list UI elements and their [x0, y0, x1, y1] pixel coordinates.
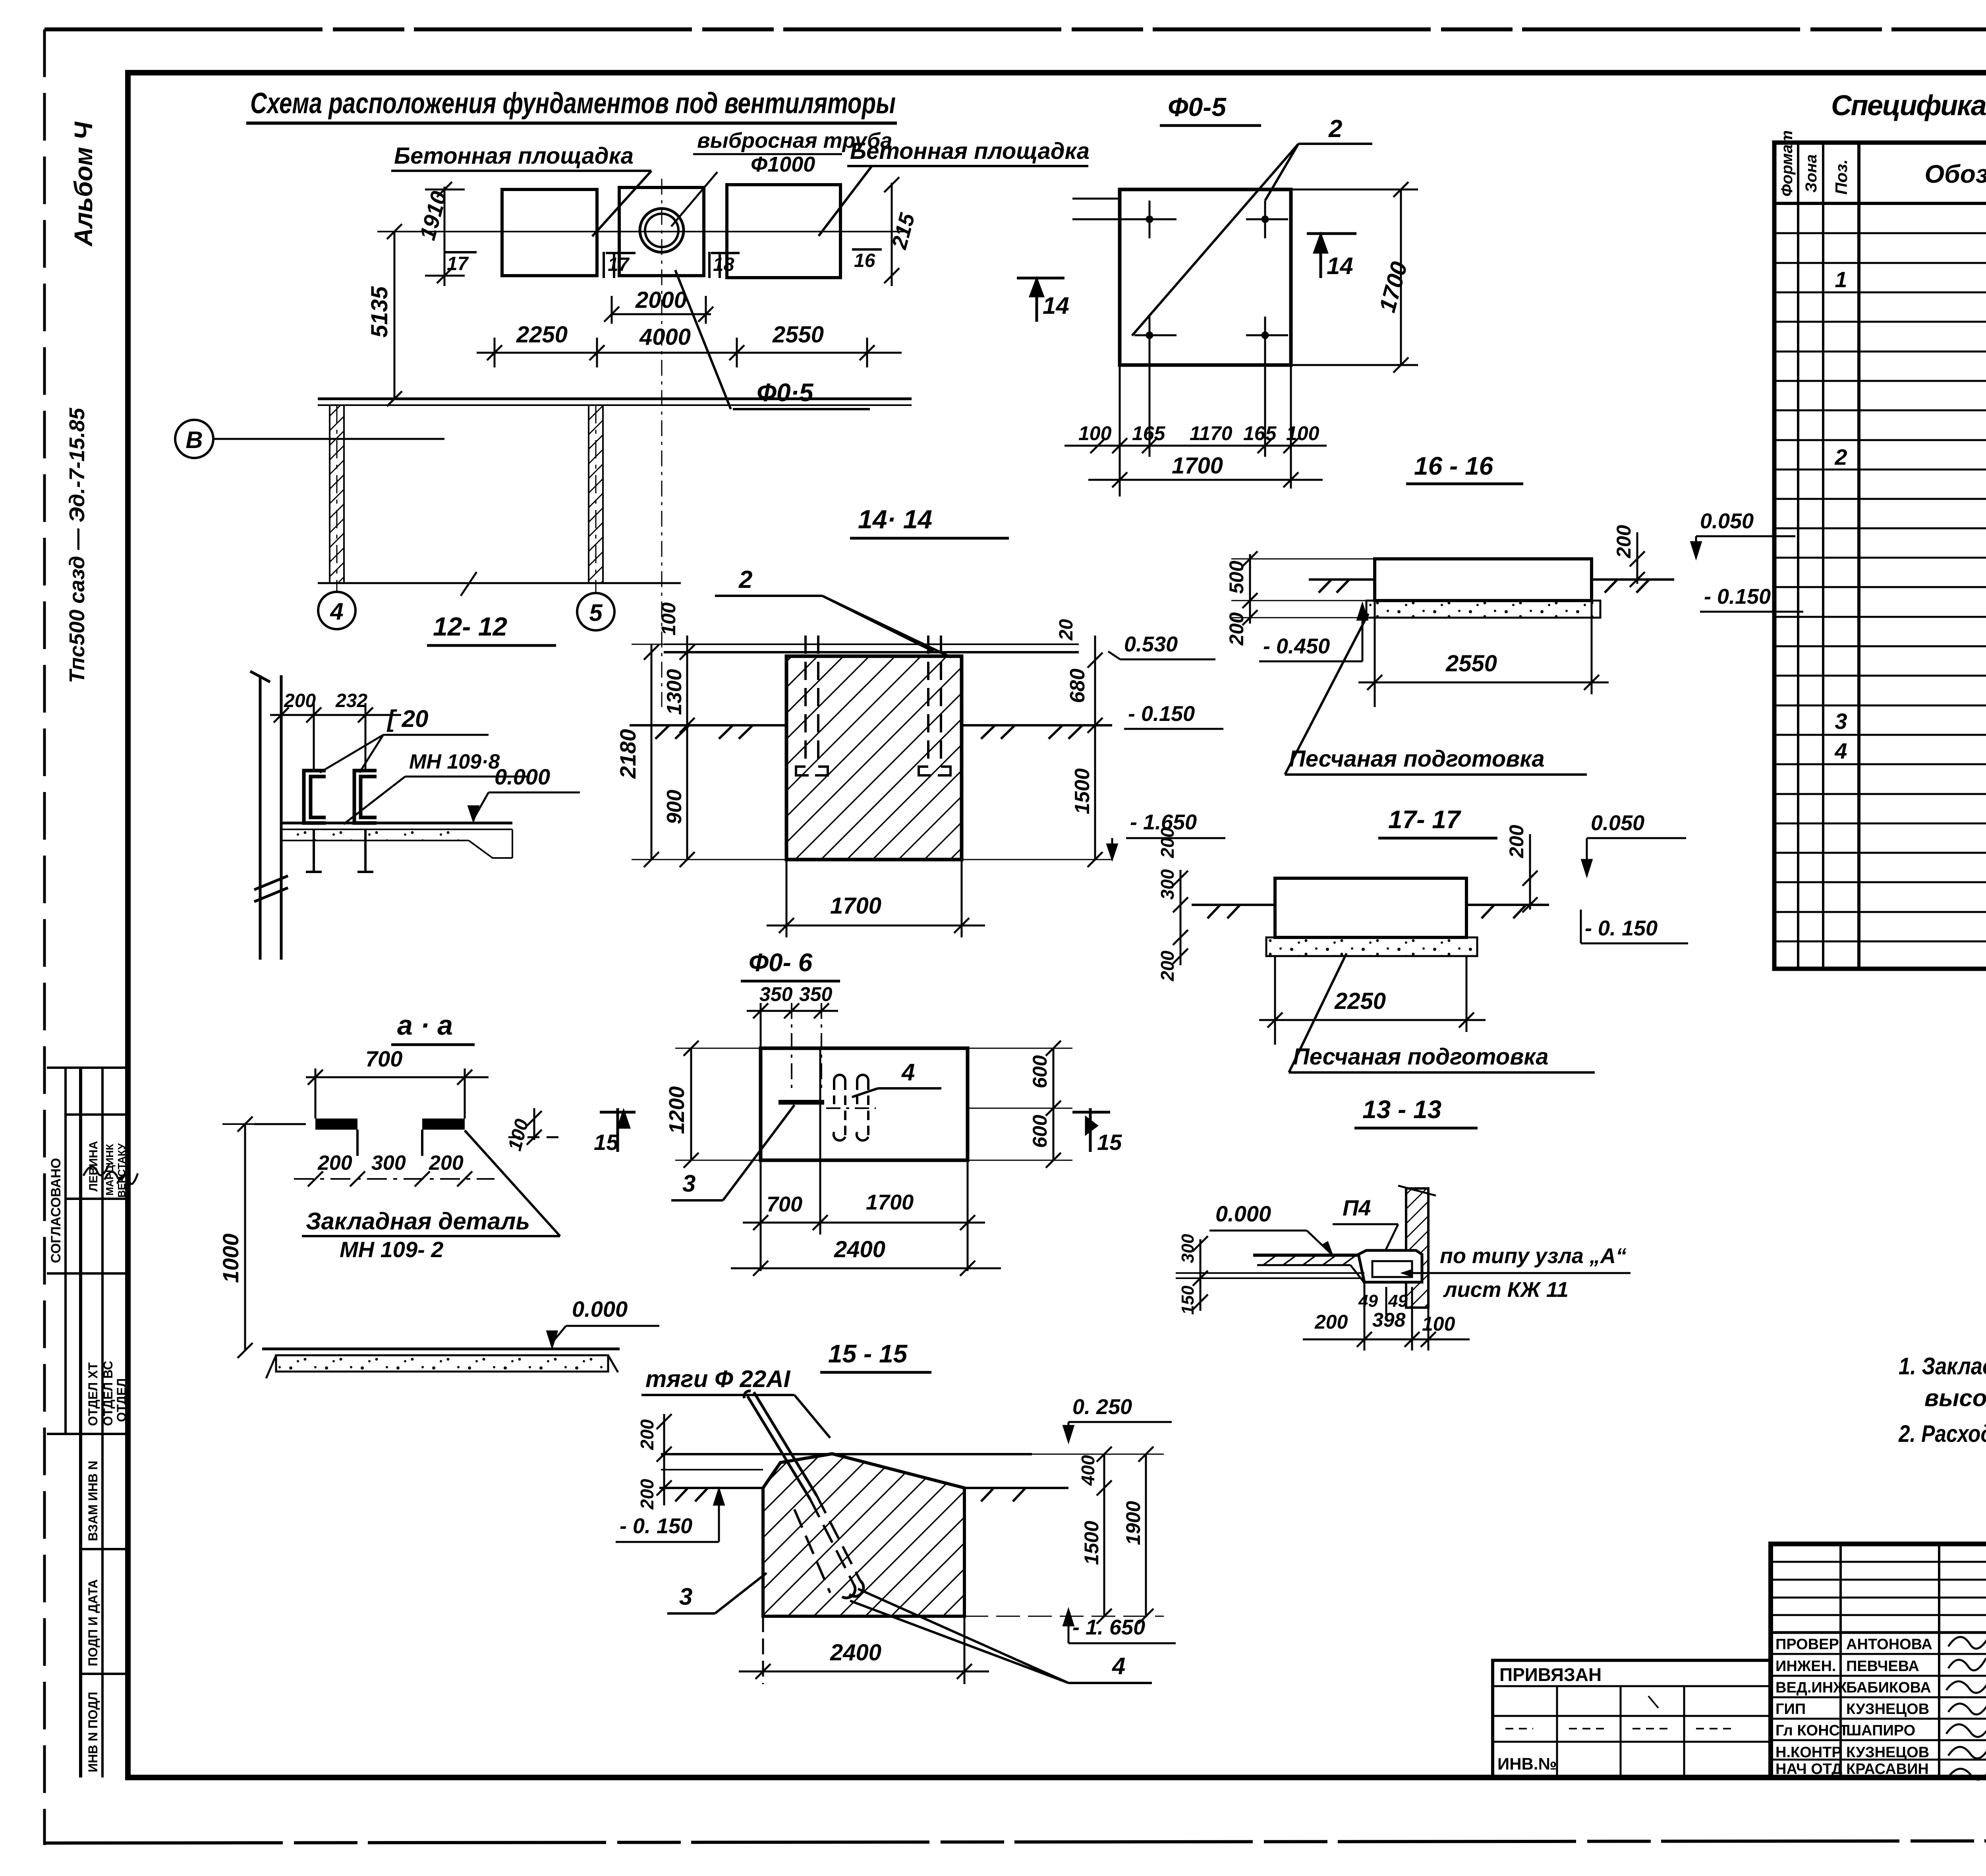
svg-text:200: 200: [1613, 525, 1635, 558]
svg-text:12- 12: 12- 12: [433, 612, 507, 641]
slab speckle band 12-12: [283, 830, 468, 840]
detail 4 hooks in plan: [826, 1075, 876, 1140]
tie rods dashed inside block: [794, 1495, 860, 1593]
floor slab strip a-a: [262, 1349, 620, 1378]
svg-text:0.000: 0.000: [572, 1296, 628, 1322]
svg-text:2400: 2400: [830, 1640, 881, 1665]
anchor bolts in plan: [1072, 199, 1288, 354]
foundation F0-5 middle: [619, 187, 704, 276]
svg-text:2000: 2000: [635, 287, 687, 313]
title block (stamp): [1771, 1544, 1986, 1777]
svg-text:700: 700: [767, 1192, 802, 1216]
svg-text:ШАПИРО: ШАПИРО: [1846, 1722, 1915, 1739]
svg-text:ПРОВЕР: ПРОВЕР: [1775, 1636, 1839, 1653]
svg-text:13 - 13: 13 - 13: [1362, 1095, 1441, 1124]
svg-text:ВЗАМ ИНВ N: ВЗАМ ИНВ N: [86, 1461, 100, 1541]
section 16-16 slab: [1375, 559, 1592, 601]
svg-text:МН 109- 2: МН 109- 2: [340, 1237, 443, 1262]
sand preparation band 16-16: [1366, 601, 1600, 618]
svg-text:1500: 1500: [1080, 1521, 1103, 1565]
svg-text:2550: 2550: [1445, 651, 1497, 676]
svg-text:2180: 2180: [615, 729, 640, 779]
svg-text:Бетонная площадка: Бетонная площадка: [394, 143, 634, 169]
svg-text:Ф0-5: Ф0-5: [1168, 92, 1227, 122]
svg-text:1500: 1500: [1071, 768, 1094, 814]
svg-text:3: 3: [679, 1583, 692, 1610]
svg-text:300: 300: [371, 1151, 406, 1175]
svg-text:Схема расположения фундаментов: Схема расположения фундаментов под венти…: [250, 87, 896, 120]
svg-text:200: 200: [1157, 951, 1178, 981]
svg-text:ПОДП И ДАТА: ПОДП И ДАТА: [86, 1579, 100, 1666]
svg-text:900: 900: [663, 790, 686, 824]
svg-text:ИНЖЕН.: ИНЖЕН.: [1775, 1658, 1836, 1675]
svg-text:2. Расход бетона на бетонны: 2. Расход бетона на бетонные площадки: б…: [1898, 1420, 1986, 1447]
svg-text:[ 20: [ 20: [386, 705, 428, 732]
14-14 foundation block hatched: [786, 656, 962, 860]
svg-text:5: 5: [589, 599, 603, 626]
svg-text:КУЗНЕЦОВ: КУЗНЕЦОВ: [1846, 1701, 1929, 1718]
svg-text:НАЧ ОТД: НАЧ ОТД: [1775, 1761, 1842, 1777]
svg-text:Спецификация монолитных фунд: Спецификация монолитных фундаментов: [1831, 90, 1986, 122]
svg-text:3: 3: [1835, 709, 1847, 734]
channel brackets [20: [304, 771, 377, 823]
svg-text:2: 2: [1834, 444, 1847, 469]
svg-text:165: 165: [1243, 422, 1277, 444]
specification table grid: [1774, 143, 1986, 969]
break mark on wall: [461, 572, 477, 596]
svg-text:Гл КОНСТ: Гл КОНСТ: [1775, 1722, 1849, 1739]
svg-text:1700: 1700: [830, 893, 881, 919]
svg-text:2250: 2250: [516, 322, 568, 348]
svg-text:17: 17: [447, 253, 469, 274]
svg-text:ОТДЕЛ: ОТДЕЛ: [114, 1378, 129, 1422]
table rows content: [1834, 205, 1986, 852]
svg-text:1300: 1300: [663, 669, 686, 715]
svg-text:17- 17: 17- 17: [1388, 805, 1462, 834]
plan view: layout of foundations under ventilators: [502, 185, 840, 278]
F0-5 foundation square: [1120, 189, 1291, 365]
svg-text:680: 680: [1066, 668, 1089, 703]
svg-text:- 0. 150: - 0. 150: [620, 1514, 692, 1538]
svg-text:ГИП: ГИП: [1775, 1701, 1806, 1718]
svg-text:МН 109·8: МН 109·8: [409, 750, 500, 773]
svg-text:П4: П4: [1343, 1195, 1371, 1220]
ground lines 14-14: [630, 725, 1112, 739]
svg-text:4: 4: [330, 598, 343, 625]
floor level line 15-15: [661, 1453, 1032, 1455]
svg-text:5135: 5135: [367, 286, 392, 338]
svg-text:14· 14: 14· 14: [858, 504, 932, 534]
svg-text:200: 200: [637, 1419, 657, 1450]
svg-text:ПЕВЧЕВА: ПЕВЧЕВА: [1846, 1658, 1919, 1675]
svg-text:БАБИКОВА: БАБИКОВА: [1846, 1679, 1931, 1696]
svg-text:4: 4: [901, 1059, 915, 1086]
svg-text:1700: 1700: [866, 1190, 914, 1214]
tie rod above ground: [744, 1391, 817, 1499]
svg-text:600: 600: [1029, 1055, 1051, 1088]
svg-text:200: 200: [637, 1479, 657, 1510]
svg-text:Песчаная подготовка: Песчаная подготовка: [1293, 1044, 1549, 1070]
svg-text:2400: 2400: [834, 1236, 885, 1262]
svg-text:КРАСАВИН: КРАСАВИН: [1846, 1761, 1929, 1777]
svg-text:- 0.150: - 0.150: [1128, 702, 1195, 726]
embedded plates a-a: [315, 1119, 357, 1130]
svg-text:0.050: 0.050: [1591, 811, 1644, 835]
svg-text:0.530: 0.530: [1124, 632, 1178, 656]
dashed centerline a-a: [294, 1178, 495, 1180]
section 17-17 slab: [1275, 878, 1466, 937]
svg-text:СОГЛАСОВАНО: СОГЛАСОВАНО: [48, 1158, 64, 1263]
left sidebar grid: [47, 1068, 128, 1777]
svg-text:Альбом Ч: Альбом Ч: [69, 121, 98, 247]
dim 1910: [425, 182, 465, 286]
channel P4 13-13: [1358, 1250, 1422, 1282]
horizontal ref line through plates: [254, 1123, 306, 1125]
floor slab 12-12: [281, 823, 512, 858]
svg-text:14: 14: [1043, 292, 1069, 319]
wall 13-13 hatched: [1406, 1188, 1428, 1308]
ground lines 16-16: [1309, 580, 1674, 593]
svg-text:- 0. 150: - 0. 150: [1585, 916, 1658, 940]
svg-text:15: 15: [1097, 1130, 1122, 1155]
svg-text:Тпс500 сазд — Эд.-7-15.85: Тпс500 сазд — Эд.-7-15.85: [65, 408, 89, 683]
svg-text:1900: 1900: [1122, 1501, 1144, 1545]
svg-text:350: 350: [799, 983, 833, 1005]
svg-text:ВЕД.ИНЖ: ВЕД.ИНЖ: [1775, 1679, 1847, 1696]
svg-text:1: 1: [1835, 267, 1847, 292]
svg-text:Закладная деталь: Закладная деталь: [306, 1208, 530, 1235]
svg-text:по типу узла „А“: по типу узла „А“: [1440, 1244, 1627, 1268]
svg-text:ИНВ N ПОДЛ: ИНВ N ПОДЛ: [86, 1692, 100, 1772]
sidebar rotated texts: [48, 1141, 129, 1772]
svg-text:4: 4: [1112, 1653, 1125, 1679]
foundation pad F0-4 left: [502, 189, 597, 276]
svg-text:49: 49: [1358, 1291, 1378, 1311]
svg-text:- 0.450: - 0.450: [1263, 634, 1330, 658]
exhaust pipe circle: [640, 209, 684, 252]
svg-text:Ф1000: Ф1000: [751, 153, 815, 176]
svg-text:1000: 1000: [218, 1233, 243, 1283]
section marks 17 17 18 16 on plan: [447, 250, 875, 275]
svg-text:18: 18: [713, 254, 734, 275]
section mark 14 right: [1307, 234, 1356, 278]
ground 17-17: [1192, 905, 1549, 918]
svg-text:1700: 1700: [1172, 453, 1223, 479]
svg-text:АНТОНОВА: АНТОНОВА: [1846, 1636, 1932, 1653]
wall in plan: [318, 399, 912, 583]
anchor bolts in 14-14 (dashed): [806, 636, 941, 767]
sand band 17-17: [1266, 937, 1477, 956]
svg-text:0.050: 0.050: [1700, 509, 1754, 533]
svg-text:Зона: Зона: [1802, 154, 1820, 193]
svg-text:высоте 1м от уровня чистого: высоте 1м от уровня чистого пола.: [1924, 1385, 1986, 1411]
detail 3 rod in plan: [779, 1100, 824, 1105]
svg-text:150: 150: [1178, 1285, 1198, 1315]
svg-text:Формат: Формат: [1778, 130, 1796, 197]
section mark 14 left: [1017, 278, 1064, 322]
svg-text:Обозначение: Обозначение: [1924, 160, 1986, 188]
floor 13-13: [1253, 1255, 1364, 1287]
svg-text:2550: 2550: [772, 322, 824, 348]
slab bottom line extending left: [1176, 1272, 1364, 1274]
svg-text:а · а: а · а: [397, 1010, 453, 1041]
axis circle 4: [318, 592, 355, 629]
ground lines 15-15: [659, 1488, 1068, 1501]
svg-text:Н.КОНТР: Н.КОНТР: [1775, 1744, 1842, 1761]
section marks 15 left/right: [600, 1108, 636, 1152]
svg-text:В: В: [185, 427, 203, 453]
svg-text:4000: 4000: [639, 324, 691, 350]
svg-text:3: 3: [682, 1170, 695, 1197]
svg-text:тяги Ф 22АΙ: тяги Ф 22АΙ: [645, 1366, 791, 1392]
section 12-12 wall: [250, 671, 288, 960]
svg-text:17: 17: [608, 254, 630, 275]
svg-text:400: 400: [1078, 1455, 1098, 1486]
svg-text:700: 700: [365, 1046, 402, 1071]
svg-text:200: 200: [1314, 1311, 1348, 1333]
svg-text:ОТДЕЛ ХТ: ОТДЕЛ ХТ: [86, 1362, 100, 1426]
svg-text:- 0.150: - 0.150: [1704, 585, 1771, 609]
svg-text:20: 20: [1056, 619, 1077, 641]
svg-text:2250: 2250: [1334, 988, 1386, 1014]
stamp role names: [1775, 1636, 1932, 1777]
svg-text:Песчаная подготовка: Песчаная подготовка: [1289, 746, 1545, 772]
bolt offset dims bottom: [1078, 422, 1319, 444]
svg-text:Поз.: Поз.: [1832, 159, 1851, 195]
signatures in sidebar: [83, 1164, 138, 1184]
floor lines over block: [664, 644, 1079, 652]
anchor legs below channels: [306, 829, 373, 872]
leader to F0-5: [675, 270, 731, 409]
svg-text:лист КЖ 11: лист КЖ 11: [1443, 1278, 1569, 1302]
svg-text:1. Закладная деталь МН1072 кр: 1. Закладная деталь МН1072 крепится к ки…: [1899, 1353, 1986, 1379]
svg-text:2: 2: [1328, 115, 1342, 143]
svg-text:4: 4: [1834, 738, 1847, 763]
axis circle 5: [577, 593, 614, 630]
svg-text:КУЗНЕЦОВ: КУЗНЕЦОВ: [1846, 1744, 1929, 1761]
svg-text:15: 15: [594, 1130, 619, 1155]
svg-text:232: 232: [335, 690, 367, 711]
svg-text:ПРИВЯЗАН: ПРИВЯЗАН: [1499, 1664, 1602, 1685]
svg-text:14: 14: [1327, 253, 1353, 279]
svg-text:200: 200: [1505, 825, 1528, 858]
svg-text:Ф0·5: Ф0·5: [757, 378, 814, 407]
svg-text:Ф0- 6: Ф0- 6: [749, 948, 813, 977]
foundation pad right: [727, 185, 840, 278]
svg-text:0.000: 0.000: [495, 764, 550, 789]
svg-text:100: 100: [1078, 422, 1112, 444]
svg-text:100: 100: [1422, 1313, 1455, 1335]
15-15 foundation block hatched: [763, 1454, 964, 1616]
F0-6 foundation rectangle: [761, 1048, 968, 1160]
svg-text:- 1. 650: - 1. 650: [1072, 1615, 1145, 1639]
svg-text:16: 16: [854, 250, 875, 271]
svg-text:49: 49: [1388, 1291, 1408, 1311]
svg-text:ОТДЕЛ ВС: ОТДЕЛ ВС: [101, 1361, 115, 1426]
svg-text:1170: 1170: [1190, 422, 1233, 444]
privyazan block: [1493, 1660, 1771, 1777]
svg-text:ИНВ.№: ИНВ.№: [1497, 1754, 1557, 1773]
svg-text:350: 350: [759, 983, 793, 1005]
svg-text:200: 200: [429, 1151, 464, 1175]
axis dash lines to circles: [336, 405, 338, 592]
hatched columns on axes: [330, 405, 344, 583]
stamp signatures: [1946, 1634, 1986, 1810]
plan centerline: [377, 231, 910, 232]
svg-text:1200: 1200: [665, 1086, 689, 1134]
svg-text:Бетонная площадка: Бетонная площадка: [850, 138, 1090, 164]
svg-text:0. 250: 0. 250: [1072, 1395, 1132, 1419]
outer thin page border: [44, 27, 1986, 31]
svg-text:100: 100: [657, 602, 680, 636]
svg-text:0.000: 0.000: [1215, 1201, 1271, 1226]
svg-text:16 - 16: 16 - 16: [1414, 452, 1493, 480]
svg-text:2: 2: [738, 566, 752, 593]
rod hooks at bottom: [842, 1581, 864, 1598]
svg-text:200: 200: [1157, 827, 1178, 858]
svg-text:15 - 15: 15 - 15: [828, 1339, 908, 1368]
svg-text:600: 600: [1029, 1115, 1051, 1148]
axis circle B: [175, 420, 213, 458]
svg-text:398: 398: [1372, 1309, 1406, 1331]
